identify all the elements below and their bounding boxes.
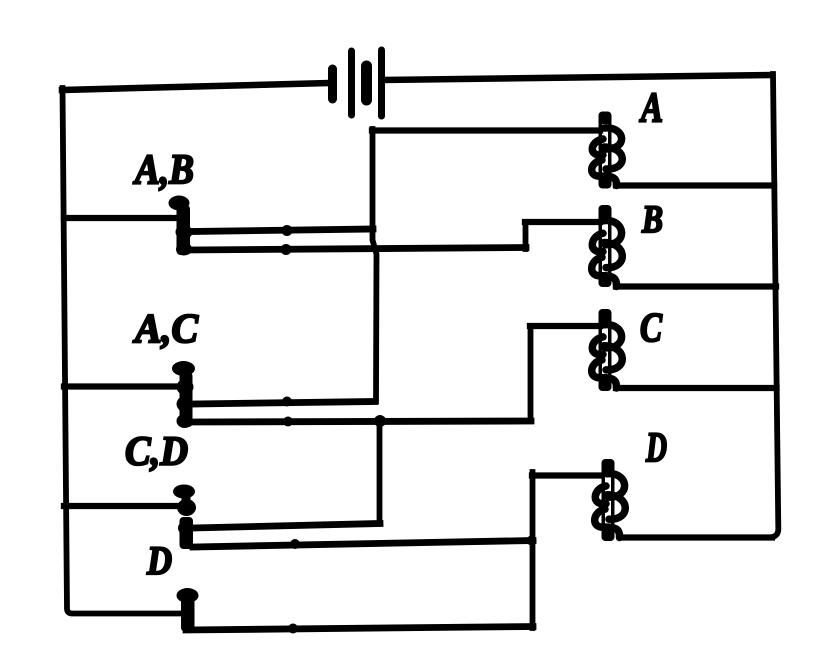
svg-text:A: A (639, 86, 663, 132)
wire coil D to right rail (622, 534, 772, 540)
wire switch A,C upper contact to center riser (191, 402, 375, 405)
wire center riser (node to coil A) (373, 129, 377, 401)
wire hanger riser from A,C lower wire to C,D upper wire (377, 421, 383, 524)
wire coil C riser (528, 326, 534, 421)
wire switch A,B upper contact to center riser (189, 229, 373, 232)
wire switch D contact to coil D riser (186, 627, 533, 631)
switch C,D (key) (173, 485, 196, 550)
wire left rail (63, 88, 183, 614)
coil D (relay coil) (595, 459, 626, 541)
wire top feed from left rail to battery (62, 83, 331, 90)
battery BT1 (333, 50, 382, 116)
wire coil A to right rail (616, 182, 774, 188)
junction dot on D wire (288, 624, 298, 634)
junction dot on A,B upper wire (282, 225, 293, 236)
junction dot on A,B lower wire (281, 244, 292, 255)
svg-text:D: D (146, 538, 172, 583)
wire switch A,C lower contact to coil C riser (190, 421, 531, 422)
switch A,B (key) (169, 196, 193, 256)
svg-text:C,D: C,D (125, 428, 188, 474)
wire coil B to right rail (616, 283, 776, 289)
svg-text:A,C: A,C (132, 305, 199, 351)
junction node hanger riser on A,C lower wire (374, 415, 386, 427)
wire right rail (769, 74, 778, 537)
wire coil C to right rail (616, 385, 777, 391)
junction node C,D lower wire at coil D riser (527, 536, 537, 546)
wire coil A feed from center riser (372, 127, 600, 133)
wire battery to right rail (383, 75, 772, 80)
coil B (relay coil) (592, 205, 623, 287)
wire coil C feed (530, 323, 600, 329)
svg-text:C: C (640, 304, 663, 350)
junction dot on A,C upper wire (282, 397, 292, 407)
wire left rail to switch C,D (64, 503, 181, 509)
wire coil B riser (523, 222, 529, 249)
coil A (relay coil) (592, 112, 623, 189)
wire coil B feed (525, 219, 600, 225)
wire switch A,B lower contact to coil B riser (188, 248, 526, 251)
switch A,C (key) (172, 361, 195, 428)
wire switch C,D upper contact to hanger riser (192, 524, 380, 529)
svg-text:A,B: A,B (132, 148, 194, 194)
coil C (relay coil) (592, 309, 623, 391)
wire coil D feed (532, 472, 601, 478)
switch D (key) (177, 588, 199, 631)
wire switch C,D lower contact to coil D riser (193, 541, 533, 548)
junction dot on A,C lower wire (283, 417, 293, 427)
wire coil D riser (530, 472, 536, 628)
junction dot on C,D lower wire (290, 539, 300, 549)
svg-text:D: D (645, 426, 667, 472)
svg-text:B: B (641, 198, 663, 241)
wire left rail to switch A,C (64, 383, 181, 389)
wire left rail to switch A,B (64, 215, 178, 221)
